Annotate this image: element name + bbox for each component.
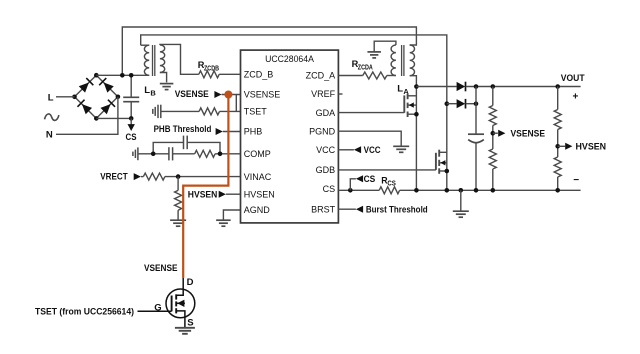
wire VSENSE pin [222, 94, 241, 96]
ground LA ZCD [367, 51, 381, 53]
wire PHB pin [223, 131, 241, 133]
ground power stage [460, 190, 462, 211]
wire VINAC row [165, 176, 241, 178]
svg-text:VCC: VCC [316, 145, 336, 155]
wire COMP to pin [215, 153, 240, 155]
resistor RZCDA [363, 72, 387, 79]
wire N input [56, 97, 118, 135]
wire VSENSE-TSET vertical link [235, 95, 237, 112]
net flag VCC [338, 149, 354, 151]
node COMP junctions [151, 152, 156, 157]
ground VINAC divider [170, 219, 186, 221]
node phase B diode junction [445, 101, 450, 106]
node Q_A source [414, 112, 419, 117]
svg-text:VSENSE: VSENSE [175, 89, 209, 99]
capacitor Cx (filter cap) [130, 75, 132, 97]
resistor TSET [199, 108, 219, 115]
svg-text:L: L [48, 92, 54, 103]
svg-text:HVSEN: HVSEN [188, 189, 218, 199]
ground AGND [216, 219, 231, 221]
node VOUT rail junctions [474, 84, 479, 89]
transistor Q1 (external MOSFET) [166, 289, 195, 318]
inductor LB core [152, 45, 154, 76]
capacitor COMP series [168, 147, 170, 160]
resistor VSENSE divider upper [492, 87, 494, 106]
wire PGND to ground [338, 131, 401, 146]
inductor LB primary winding [141, 44, 150, 46]
svg-text:TSET: TSET [244, 107, 268, 117]
net flag CS (chip) [350, 179, 356, 191]
svg-text:+: + [573, 92, 579, 103]
resistor VINAC upper divider [143, 173, 164, 180]
svg-text:−: − [573, 175, 579, 186]
node diode cathodes tie [474, 101, 479, 106]
svg-text:N: N [46, 129, 53, 140]
node HVSEN divider junction [555, 144, 560, 149]
svg-text:L: L [397, 84, 403, 95]
wire TSET row [161, 110, 199, 112]
ground PGND [393, 145, 409, 147]
inductor LA primary winding [410, 45, 415, 76]
svg-text:AGND: AGND [244, 205, 271, 215]
wire HVSEN pin [226, 193, 241, 195]
wire LB ZCD bottom to ground [160, 73, 167, 83]
transistor Q_A gate wire (GDA) [338, 112, 404, 114]
resistor VINAC lower divider [177, 177, 179, 191]
resistor VSENSE divider lower [489, 149, 496, 169]
AC source symbol [45, 114, 59, 120]
wire RZCDA to LA ZCD winding [387, 75, 396, 77]
svg-text:VINAC: VINAC [244, 172, 272, 182]
node VSENSE divider junction [491, 131, 496, 136]
svg-text:B: B [150, 88, 156, 97]
resistor RCS [379, 187, 399, 194]
wire COMP from ground [138, 153, 169, 155]
svg-text:HVSEN: HVSEN [576, 142, 607, 152]
transistor Q_A [403, 95, 405, 112]
svg-text:ZCDA: ZCDA [358, 64, 373, 71]
wire LA primary bottom to switch node A [410, 76, 417, 191]
ground TSET (rotated) [152, 109, 154, 114]
wire top outer rail (bridge+ to LA primary top) [122, 27, 416, 75]
svg-text:VRECT: VRECT [100, 172, 128, 182]
node Q_B source [445, 169, 450, 174]
capacitor TSET [157, 105, 159, 118]
wire bottom rail [400, 189, 581, 191]
ground LB ZCD [160, 83, 174, 85]
node bridge vertices [94, 73, 99, 78]
bridge rectifier diamond [75, 75, 118, 118]
capacitor COMP parallel branch [153, 142, 183, 153]
svg-text:VSENSE: VSENSE [244, 90, 281, 100]
svg-text:ZCD_A: ZCD_A [306, 71, 336, 81]
node switch node A [414, 84, 419, 89]
svg-text:VSENSE: VSENSE [511, 129, 546, 139]
node bottom rail junctions [414, 188, 419, 193]
wire Q1 gate [138, 310, 172, 312]
net flag HVSEN (output divider) [558, 145, 566, 147]
resistor RZCDB [199, 71, 219, 78]
svg-text:BRST: BRST [311, 204, 336, 214]
svg-text:Burst Threshold: Burst Threshold [366, 205, 428, 215]
wire LB ZCD top to RZCDB [160, 44, 199, 74]
wire LA ZCD top to ground [374, 41, 396, 52]
svg-text:ZCD_B: ZCD_B [244, 70, 274, 80]
diode boost A [457, 82, 466, 91]
op-amp U1 UCC28064A chip body [241, 50, 339, 223]
net flag Burst Threshold [338, 208, 356, 210]
svg-text:S: S [187, 317, 193, 328]
svg-text:D: D [187, 277, 194, 288]
svg-text:CS: CS [364, 174, 376, 184]
wire diode B cathode junction [466, 103, 476, 105]
ground COMP (rotated) [132, 152, 134, 156]
diode boost B [457, 99, 466, 108]
bridge diode D1 (left-top) [79, 83, 89, 93]
wire RZCDB to ZCD_B pin [219, 73, 240, 75]
svg-text:CS: CS [323, 184, 336, 194]
wire COMP mid [173, 153, 195, 155]
inductor LA core [401, 45, 403, 76]
wire L input [56, 96, 75, 98]
svg-text:GDA: GDA [316, 108, 336, 118]
svg-text:TSET (from UCC256614): TSET (from UCC256614) [35, 306, 134, 316]
svg-text:PHB: PHB [244, 127, 263, 137]
wire inner rail (LB primary top to phase-B switch node vertical) [141, 35, 447, 190]
svg-text:GDB: GDB [316, 165, 336, 175]
svg-text:VOUT: VOUT [561, 73, 585, 83]
svg-text:COMP: COMP [244, 149, 271, 159]
bridge diode D2 (right-top) [104, 83, 114, 93]
wire bridge+ rail [96, 74, 149, 76]
wire AGND to ground [223, 210, 240, 220]
bridge diode D3 (bottom-left) [82, 104, 92, 114]
inductor LA ZCD winding [391, 45, 396, 76]
svg-text:ZCDB: ZCDB [204, 65, 219, 72]
wire bridge- rail [96, 117, 131, 119]
node CS return junction [129, 116, 134, 121]
wire TSET to pin [220, 110, 241, 112]
wire ZCD_A pin to RZCDA [338, 75, 362, 77]
svg-text:UCC28064A: UCC28064A [265, 54, 314, 64]
wire switch node A to diode A [416, 86, 456, 88]
wire VREF stub [338, 93, 342, 95]
svg-text:CS: CS [126, 132, 137, 142]
svg-text:VCC: VCC [364, 145, 381, 155]
svg-text:L: L [144, 85, 150, 96]
node VINAC divider junction [176, 174, 181, 179]
wire diode A cathode to VOUT rail [466, 86, 581, 88]
resistor COMP [195, 150, 215, 157]
net flag CS (bridge return) [130, 118, 132, 124]
net flag VSENSE (output divider) [493, 132, 498, 134]
capacitor output bulk [475, 87, 477, 135]
transistor Q_B gate wire (GDB) [338, 169, 436, 171]
resistor HVSEN divider lower [554, 157, 561, 177]
inductor LB ZCD winding [160, 45, 165, 73]
svg-text:PGND: PGND [309, 126, 336, 136]
svg-text:CS: CS [387, 181, 396, 188]
node CS pin junction [348, 188, 353, 193]
transistor Q_B [435, 153, 437, 170]
wire phase B node to diode B [447, 103, 457, 105]
node bridge+ junctions [120, 73, 125, 78]
node VSENSE pin (orange) [224, 91, 232, 99]
svg-text:VREF: VREF [311, 89, 336, 99]
resistor HVSEN divider upper [557, 87, 559, 110]
wire CS pin to RCS [338, 189, 379, 191]
svg-text:HVSEN: HVSEN [244, 189, 275, 199]
wire VSENSE orange trace [183, 95, 228, 278]
ground Q1 source [175, 327, 195, 329]
bridge diode D4 (bottom-right) [100, 104, 110, 114]
svg-text:PHB Threshold: PHB Threshold [154, 124, 212, 134]
svg-text:VSENSE: VSENSE [144, 263, 178, 273]
